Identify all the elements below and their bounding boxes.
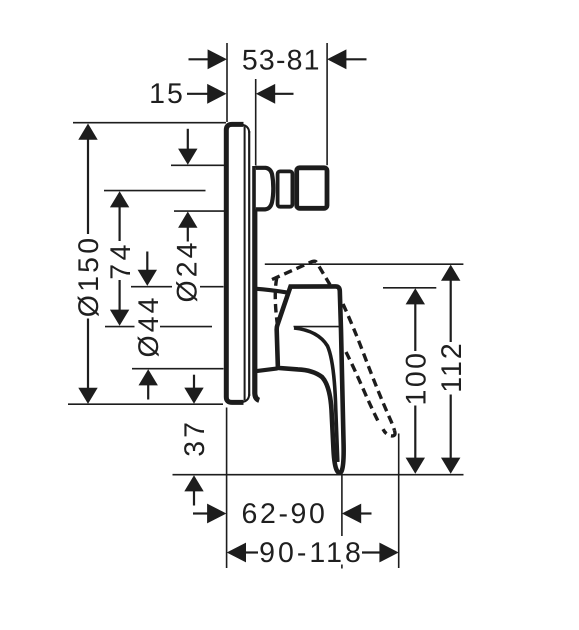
svg-text:Ø24: Ø24 (171, 240, 203, 303)
svg-text:37: 37 (179, 419, 211, 457)
svg-text:Ø150: Ø150 (73, 235, 105, 318)
svg-text:62-90: 62-90 (242, 498, 328, 530)
svg-text:Ø44: Ø44 (133, 295, 165, 358)
svg-text:90-118: 90-118 (259, 537, 364, 569)
svg-text:53-81: 53-81 (242, 45, 321, 77)
svg-text:15: 15 (149, 78, 185, 110)
svg-text:100: 100 (401, 350, 433, 405)
svg-text:74: 74 (105, 241, 137, 280)
svg-text:112: 112 (436, 341, 468, 392)
